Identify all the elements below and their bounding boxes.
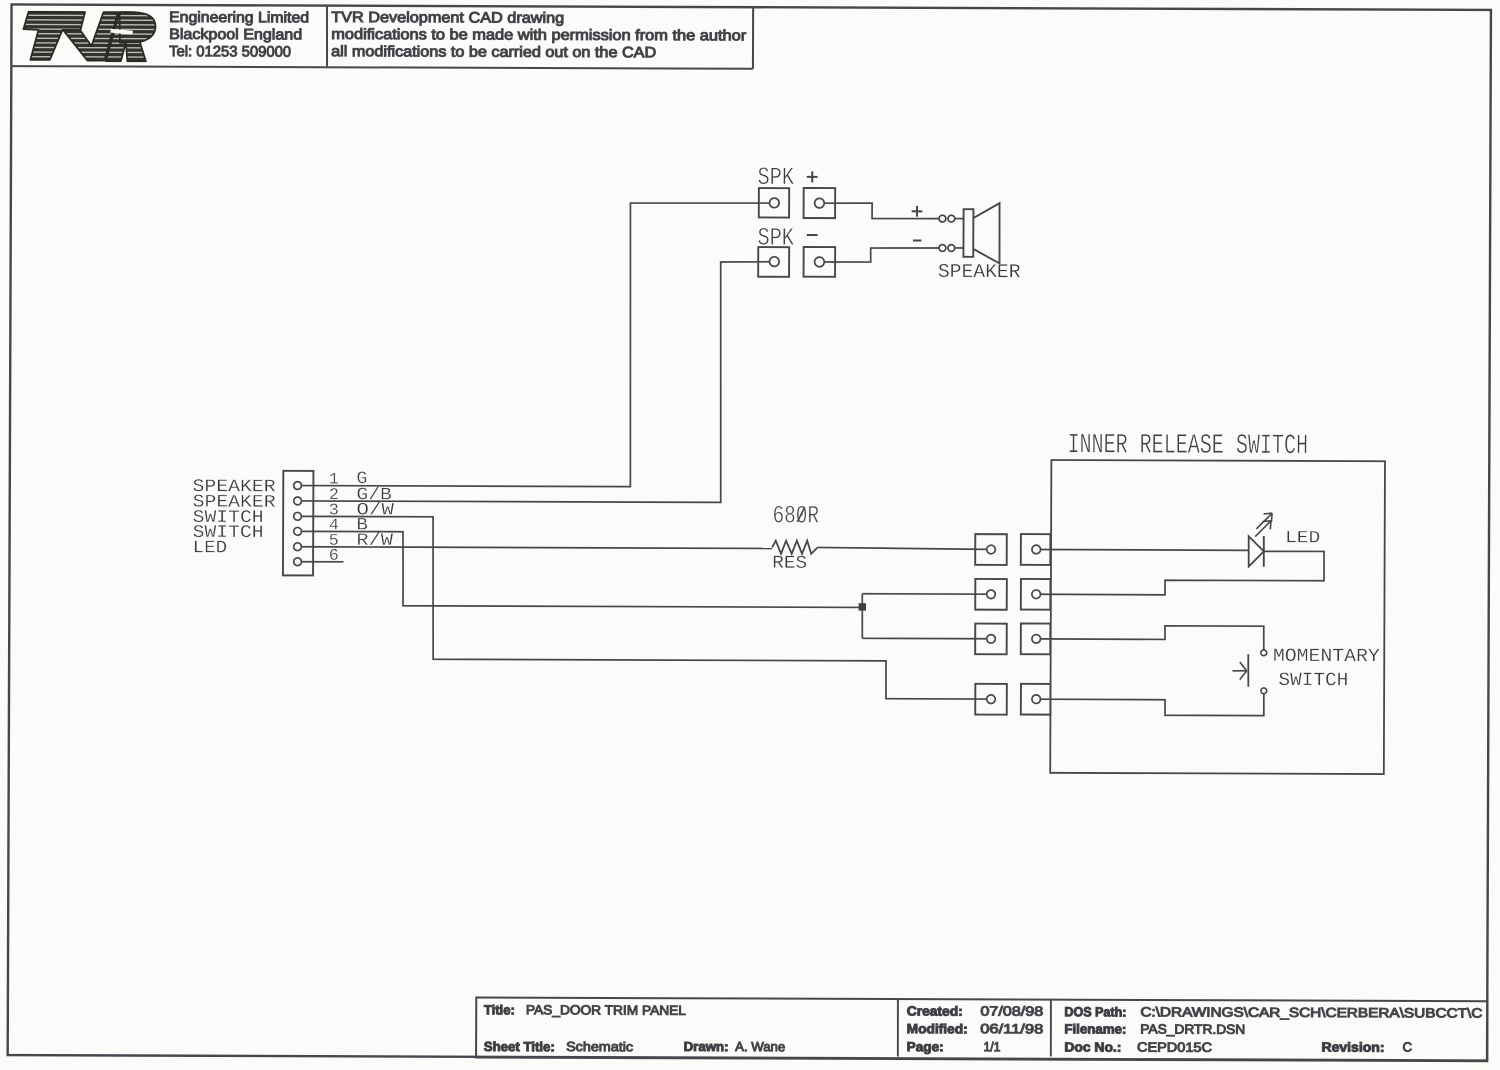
connector J1 pin circle <box>294 558 302 566</box>
connector SPK- right half <box>804 247 836 277</box>
connector J1 pin circle <box>294 527 302 535</box>
wire pin5 R/W to resistor <box>301 547 772 549</box>
wire row4 to switch lower contact <box>1040 693 1263 716</box>
svg-text:Modified:: Modified: <box>907 1021 968 1036</box>
wire row3 to switch upper contact <box>1040 625 1263 650</box>
svg-text:DOS Path:: DOS Path: <box>1064 1004 1126 1019</box>
svg-text:LED: LED <box>193 538 228 558</box>
connector row4 (switch B) right half <box>1021 684 1051 715</box>
svg-text:Revision:: Revision: <box>1321 1040 1384 1055</box>
switch SW1 lever <box>1247 654 1249 687</box>
svg-text:C: C <box>1402 1040 1412 1055</box>
speaker LS1 body <box>963 209 973 257</box>
label - near speaker <box>913 240 922 242</box>
svg-text:Filename:: Filename: <box>1064 1021 1126 1036</box>
svg-text:Tel: 01253 509000: Tel: 01253 509000 <box>169 43 291 60</box>
svg-text:Created:: Created: <box>907 1003 963 1018</box>
svg-text:C:\DRAWINGS\CAR_SCH\CERBERA\SU: C:\DRAWINGS\CAR_SCH\CERBERA\SUBCCT\C <box>1140 1004 1483 1020</box>
wire row1 to LED anode <box>1041 548 1249 551</box>
wire LED cathode return to row2 <box>1040 550 1324 595</box>
connector J1 pin circle <box>294 482 302 490</box>
label + near speaker <box>912 210 923 212</box>
wire inside SPK- right <box>824 248 939 263</box>
connector row1 (LED+) right half <box>1021 534 1051 565</box>
switch SW1 upper contact <box>1261 650 1267 656</box>
svg-text:Engineering Limited: Engineering Limited <box>169 9 309 27</box>
wire terminal to speaker + <box>955 218 964 220</box>
wire pin6 stub <box>301 561 343 563</box>
TVR logo <box>23 12 155 61</box>
connector row2 (LED-) left half <box>975 579 1007 610</box>
LED D1 <box>1249 536 1264 566</box>
svg-text:06/11/98: 06/11/98 <box>980 1021 1043 1036</box>
wire inside SPK+ right <box>824 203 939 219</box>
svg-text:A. Wane: A. Wane <box>735 1039 785 1054</box>
title block box <box>476 997 1487 1061</box>
wire junction vertical <box>861 594 863 639</box>
svg-text:PAS_DRTR.DSN: PAS_DRTR.DSN <box>1140 1021 1245 1036</box>
connector J1 pin circle <box>294 497 302 505</box>
connector SPK- left half <box>758 247 789 277</box>
svg-text:RES: RES <box>772 554 807 574</box>
svg-text:INNER RELEASE SWITCH: INNER RELEASE SWITCH <box>1067 430 1308 462</box>
speaker terminal circles + <box>939 215 946 222</box>
switch SW1 actuator arrow <box>1233 670 1247 672</box>
svg-text:Schematic: Schematic <box>566 1039 633 1054</box>
svg-text:Title:: Title: <box>484 1002 515 1017</box>
switch SW1 lower contact <box>1261 688 1267 694</box>
svg-text:07/08/98: 07/08/98 <box>980 1003 1043 1018</box>
wire pin3 O/W to row4 <box>301 516 988 699</box>
svg-text:680R: 680R <box>773 501 820 530</box>
inner release switch enclosure box <box>1050 460 1385 774</box>
connector row2 (LED-) right half <box>1021 579 1051 610</box>
svg-text:all modifications to be carrie: all modifications to be carried out on t… <box>331 43 656 61</box>
resistor RES zigzag <box>772 541 817 554</box>
connector SPK+ right half <box>804 188 836 218</box>
svg-text:TVR Development CAD drawing: TVR Development CAD drawing <box>331 9 564 27</box>
svg-text:Blackpool England: Blackpool England <box>169 26 302 43</box>
wire pin2 G/B to SPK- <box>302 260 770 503</box>
connector row4 (switch B) left half <box>975 684 1007 715</box>
connector J1 pin circle <box>294 543 302 551</box>
connector SPK+ left half <box>759 188 789 218</box>
svg-text:Sheet Title:: Sheet Title: <box>484 1039 555 1054</box>
connector row1 (LED+) left half <box>975 534 1007 565</box>
wire junction branch to row2 <box>862 593 986 595</box>
connector row3 (switch A) right half <box>1021 624 1051 655</box>
speaker LS1 cone <box>973 203 1000 263</box>
connector J1 (door trim panel, 6-way) <box>283 471 313 576</box>
svg-text:PAS_DOOR TRIM PANEL: PAS_DOOR TRIM PANEL <box>526 1002 686 1018</box>
wire junction branch to row3 <box>862 637 986 639</box>
svg-text:SPEAKER: SPEAKER <box>938 261 1021 283</box>
header title block <box>11 66 753 69</box>
svg-text:modifications to be made with: modifications to be made with permission… <box>331 26 746 45</box>
speaker terminal circles - <box>939 245 946 252</box>
svg-text:R/W: R/W <box>356 532 393 551</box>
svg-text:MOMENTARY: MOMENTARY <box>1273 646 1380 667</box>
wire pin1 G to SPK+ <box>301 201 769 487</box>
wire resistor to row1 <box>817 547 986 549</box>
connector row3 (switch A) left half <box>975 624 1007 655</box>
label + (top) <box>807 176 818 178</box>
svg-text:Drawn:: Drawn: <box>684 1039 729 1054</box>
connector J1 pin circle <box>294 512 302 520</box>
svg-text:Page:: Page: <box>907 1039 944 1054</box>
title block divider 1 <box>897 999 899 1057</box>
wire terminal to speaker - <box>955 247 964 249</box>
svg-text:SWITCH: SWITCH <box>1278 669 1348 691</box>
title block divider 2 <box>1050 999 1052 1057</box>
junction node (solid square) <box>859 603 866 610</box>
label - (bottom) <box>807 234 818 236</box>
svg-text:LED: LED <box>1285 529 1320 548</box>
svg-text:CEPD015C: CEPD015C <box>1137 1040 1213 1055</box>
LED arrow 2 <box>1255 521 1271 537</box>
svg-text:Doc No.:: Doc No.: <box>1064 1039 1121 1054</box>
LED arrow 1 <box>1256 513 1272 529</box>
svg-text:1/1: 1/1 <box>983 1039 1000 1054</box>
wire pin4 B to junction <box>301 531 862 607</box>
